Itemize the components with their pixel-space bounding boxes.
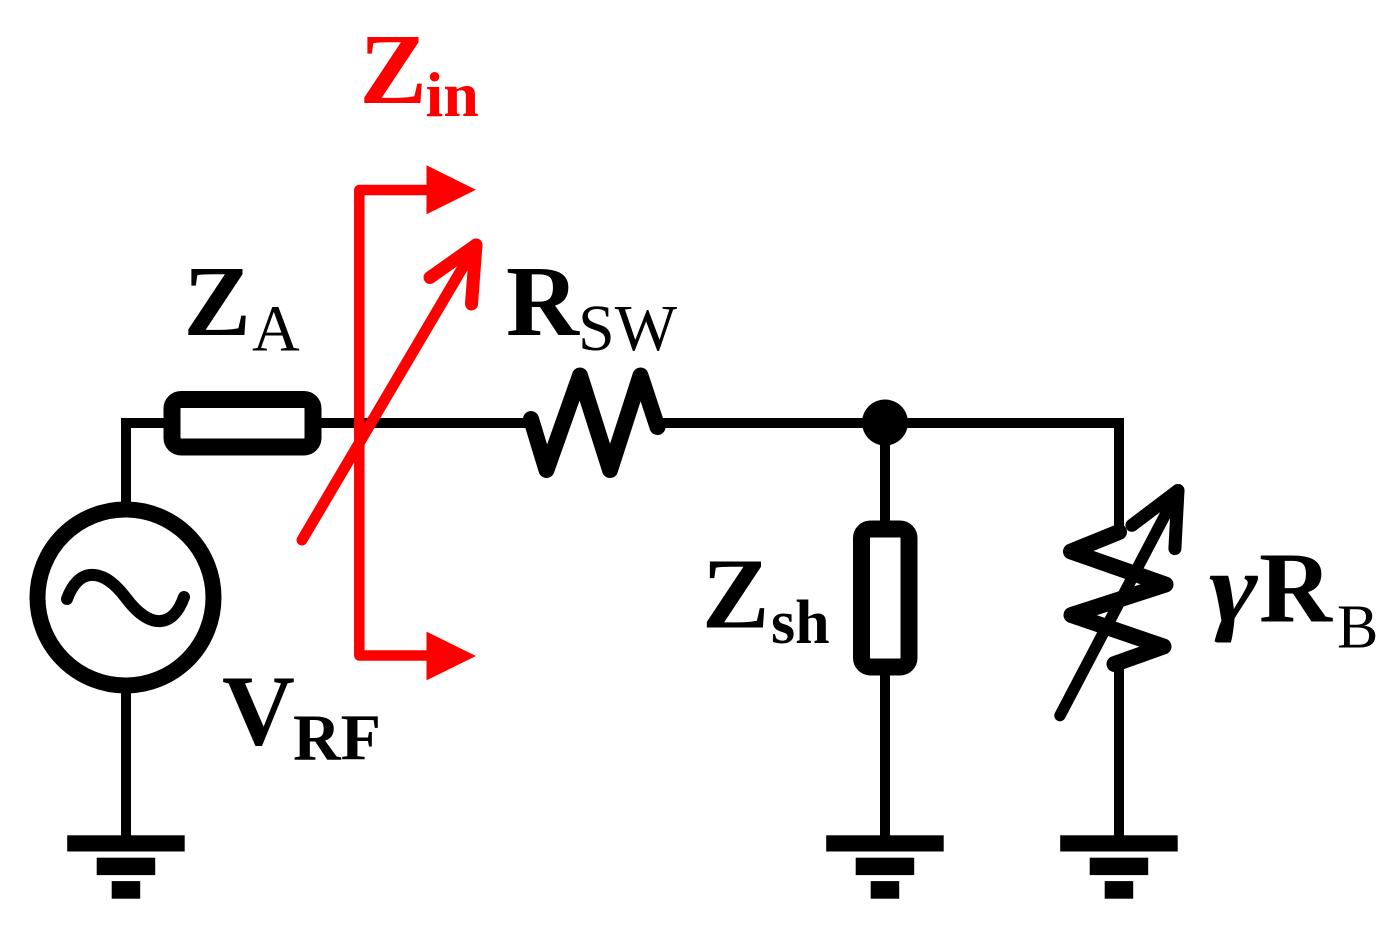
svg-text:R: R	[506, 245, 580, 357]
svg-text:R: R	[1259, 532, 1333, 644]
svg-text:A: A	[252, 293, 300, 366]
svg-text:Z: Z	[184, 245, 251, 357]
svg-text:RF: RF	[293, 702, 381, 775]
svg-text:SW: SW	[578, 292, 678, 365]
svg-text:γ: γ	[1209, 533, 1258, 644]
svg-text:V: V	[222, 655, 295, 767]
svg-text:Z: Z	[360, 13, 427, 125]
svg-text:in: in	[426, 59, 479, 130]
svg-text:sh: sh	[771, 589, 830, 657]
svg-text:B: B	[1337, 594, 1378, 662]
svg-text:Z: Z	[702, 538, 769, 650]
